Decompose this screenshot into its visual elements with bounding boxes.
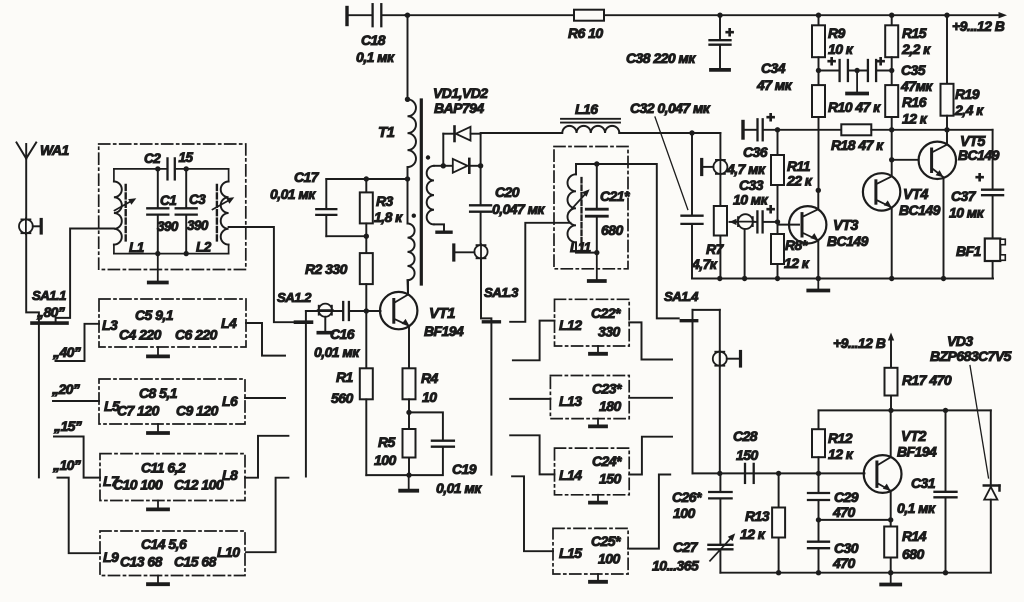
svg-text:+: +: [876, 53, 885, 70]
svg-text:2,2 к: 2,2 к: [901, 41, 931, 57]
svg-text:C3: C3: [189, 192, 206, 207]
svg-text:10 мк: 10 мк: [949, 205, 985, 221]
capacitor C16: [342, 302, 344, 320]
svg-text:SA1.3: SA1.3: [484, 285, 519, 300]
svg-text:470: 470: [832, 504, 855, 520]
svg-text:C8 5,1: C8 5,1: [139, 385, 178, 401]
wire antenna mast: [25, 159, 27, 220]
inductor L16: [562, 126, 619, 133]
svg-text:R5: R5: [378, 434, 396, 450]
node C34 C35 ground: [854, 68, 859, 73]
capacitor C32: [691, 133, 693, 214]
svg-text:„15”: „15”: [53, 418, 82, 434]
svg-text:L4: L4: [221, 315, 237, 331]
node T1 tap: [405, 176, 410, 181]
capacitor C31: [945, 410, 947, 490]
svg-text:180: 180: [599, 398, 621, 414]
wire antenna to pole: [26, 233, 39, 477]
node R13 rail: [776, 570, 781, 575]
wire VT3 collector: [817, 190, 819, 209]
svg-text:+: +: [766, 201, 775, 218]
svg-text:15: 15: [179, 150, 194, 165]
svg-text:L8: L8: [222, 467, 238, 483]
filter box L13: [550, 376, 629, 419]
antenna WA1: [17, 143, 27, 159]
node top left: [155, 166, 160, 171]
wire C18 to T1: [407, 15, 409, 99]
svg-text:BF1: BF1: [956, 243, 982, 259]
wire box2 right: [245, 397, 285, 399]
transformer T1 secondary: [434, 165, 443, 167]
capacitor C33: [756, 211, 758, 232]
wire emitter link: [819, 519, 891, 521]
ground under L12: [597, 346, 599, 354]
svg-text:390: 390: [187, 218, 209, 233]
svg-text:+: +: [975, 169, 984, 186]
svg-text:C17: C17: [294, 169, 320, 185]
pointer C32: [655, 117, 688, 210]
svg-text:1,8 к: 1,8 к: [374, 209, 403, 225]
capacitor C18: [349, 14, 372, 16]
svg-text:4,7 мк: 4,7 мк: [726, 161, 766, 177]
inductor L1: [114, 182, 122, 245]
wire SA1.3 pos2: [513, 321, 555, 361]
svg-text:BC149: BC149: [899, 202, 941, 218]
pointer VD3: [970, 366, 989, 479]
svg-text:47 мк: 47 мк: [756, 77, 793, 93]
capacitor C28: [744, 464, 746, 483]
capacitor C26: [719, 473, 721, 490]
svg-text:L6: L6: [222, 393, 238, 409]
svg-text:150: 150: [736, 447, 758, 463]
ground under box3: [157, 501, 159, 510]
node VT3 emitter rail: [816, 276, 821, 281]
capacitor C37: [992, 130, 994, 188]
wire band10 throw: [58, 478, 101, 554]
svg-text:L3: L3: [102, 317, 118, 333]
wire L1 tap to SA1.1: [56, 229, 114, 322]
capacitor C20: [470, 204, 491, 206]
svg-text:VT1: VT1: [429, 305, 455, 322]
terminal C18 left: [345, 8, 348, 25]
wire R16 to VT4: [891, 130, 893, 177]
svg-text:680: 680: [601, 222, 623, 238]
node top right: [184, 166, 189, 171]
switch SA1.2 contact bar: [296, 320, 312, 324]
variable capacitor C27: [708, 544, 732, 546]
svg-text:„10”: „10”: [52, 457, 81, 473]
svg-text:VT3: VT3: [833, 218, 858, 234]
switch SA1.4 pole frame: [693, 309, 720, 311]
svg-text:„20”: „20”: [51, 381, 80, 397]
svg-text:C37: C37: [951, 188, 977, 204]
svg-text:C19: C19: [452, 461, 477, 477]
svg-text:C20: C20: [495, 184, 520, 200]
svg-text:L14: L14: [559, 467, 582, 483]
ground VT1 stage: [408, 475, 410, 491]
svg-text:100: 100: [673, 505, 695, 521]
ground L11: [596, 253, 598, 281]
svg-text:C6 220: C6 220: [175, 327, 218, 343]
zener diode VD3: [990, 410, 992, 484]
capacitor C1: [157, 169, 159, 207]
svg-text:L15: L15: [559, 545, 582, 561]
svg-text:R2 330: R2 330: [305, 261, 348, 277]
svg-text:L2: L2: [196, 240, 212, 255]
band filter box L3 L4: [99, 299, 246, 347]
capacitor C21: [596, 164, 598, 208]
switch wafer SA1.3: [474, 245, 487, 258]
svg-text:C18: C18: [361, 32, 386, 48]
wire osc base rail: [720, 472, 865, 474]
ground under L14: [597, 495, 599, 503]
earphone BF1: [985, 239, 1001, 262]
supply arrow oscillator: [890, 337, 892, 368]
node C29 C30: [816, 517, 821, 522]
resistor R3: [365, 179, 367, 192]
switch SA1.1 contact bar: [32, 321, 67, 325]
svg-text:R19: R19: [955, 86, 980, 102]
ground C34 C35: [856, 71, 858, 94]
inner frame left: [113, 169, 115, 182]
switch SA1.3 contact bar: [483, 320, 499, 323]
wire L13 to SA1.4: [629, 397, 672, 399]
node C36 out: [775, 127, 780, 132]
capacitor C38: [719, 15, 721, 39]
band filter box L9 L10: [100, 531, 245, 576]
node VT2 emitter: [888, 517, 893, 522]
svg-text:+: +: [827, 53, 836, 70]
node VT3 collector: [816, 188, 821, 193]
node bottom left: [155, 251, 160, 256]
resistor R19: [946, 15, 948, 84]
ground tuned circuit: [157, 254, 159, 283]
svg-text:C5 9,1: C5 9,1: [135, 307, 174, 323]
svg-text:R12: R12: [828, 430, 853, 446]
capacitor C17: [325, 179, 327, 208]
node C18 T1: [405, 13, 410, 18]
svg-text:L16: L16: [575, 101, 598, 117]
resistor R16: [891, 71, 893, 86]
svg-text:4,7к: 4,7к: [691, 256, 718, 272]
svg-text:470: 470: [832, 555, 855, 571]
contact SA1.4: [727, 358, 739, 360]
node rail R9: [816, 13, 821, 18]
svg-text:12 к: 12 к: [902, 111, 928, 127]
resistor R7 line: [719, 133, 721, 160]
svg-text:BF194: BF194: [897, 444, 937, 460]
svg-text:C29: C29: [834, 489, 859, 505]
contact SA1.3: [452, 245, 455, 260]
resistor R2: [365, 236, 367, 253]
capacitor C19: [409, 412, 443, 439]
svg-text:0,047 мк: 0,047 мк: [492, 201, 545, 217]
node secondary top: [441, 163, 446, 168]
resistor R15: [891, 15, 893, 25]
svg-text:C32 0,047 мк: C32 0,047 мк: [630, 100, 711, 116]
node VT4 collector: [889, 157, 894, 162]
node R14 rail: [888, 570, 893, 575]
wiper R7: [730, 221, 738, 223]
band filter box L5 L6: [99, 379, 245, 424]
node R17 rail: [888, 408, 893, 413]
inner frame right: [228, 169, 230, 182]
svg-text:C25*: C25*: [591, 533, 621, 549]
wire top rail right: [604, 14, 1001, 16]
node R16 R18: [889, 127, 894, 132]
svg-text:+9...12 В: +9...12 В: [833, 335, 886, 351]
wire SA1.2 to C16: [306, 310, 342, 312]
svg-text:C4 220: C4 220: [119, 327, 162, 343]
svg-text:C22*: C22*: [591, 305, 621, 321]
svg-text:C11 6,2: C11 6,2: [141, 460, 186, 476]
wire VT1 emitter: [408, 326, 410, 368]
resistor R9: [818, 15, 820, 25]
wire box4 right: [246, 478, 288, 553]
resistor R4: [403, 368, 416, 399]
ground under L15: [597, 574, 599, 582]
wire band15 throw: [54, 437, 100, 478]
svg-text:R13: R13: [745, 508, 770, 524]
node rail R15: [889, 13, 894, 18]
node C32: [689, 130, 694, 135]
node C33 out: [775, 219, 780, 224]
svg-text:R14: R14: [902, 528, 927, 544]
svg-text:SA1.4: SA1.4: [664, 289, 699, 304]
svg-text:C23*: C23*: [592, 381, 622, 397]
wire VT1 collector: [407, 281, 409, 295]
node R4 R5: [406, 410, 411, 415]
wire SA1.3 pos3: [510, 398, 550, 400]
resistor R14: [890, 520, 892, 527]
transformer T1 core: [420, 100, 423, 284]
svg-text:SA1.1: SA1.1: [32, 288, 66, 303]
capacitor C30: [818, 520, 820, 540]
wire box3 right: [245, 436, 288, 478]
svg-text:C35: C35: [901, 62, 926, 78]
wire L2 tap to SA1.2: [229, 227, 296, 322]
node A C34: [816, 68, 821, 73]
node B C35: [889, 68, 894, 73]
switch wafer R7 top: [713, 160, 727, 174]
svg-text:WA1: WA1: [40, 142, 69, 158]
switch wafer SA1.2: [319, 304, 332, 317]
wire VT2 emitter: [890, 491, 892, 520]
resistor R17: [885, 368, 898, 396]
svg-text:R6 10: R6 10: [568, 25, 603, 41]
svg-text:R17 470: R17 470: [902, 372, 952, 388]
node VT4 emitter rail: [889, 276, 894, 281]
wire VT5 collector: [946, 130, 948, 145]
svg-text:0,1 мк: 0,1 мк: [897, 500, 936, 516]
svg-text:47мк: 47мк: [900, 78, 933, 94]
shield box L1 L2: [99, 144, 246, 270]
svg-text:L11: L11: [570, 240, 591, 255]
inner frame bottom: [114, 253, 229, 255]
svg-text:L10: L10: [217, 544, 240, 560]
transformer T1 primary upper: [408, 99, 416, 167]
contact R7 wafer: [700, 160, 703, 175]
node R12 base: [816, 471, 821, 476]
node L11 bottom: [594, 250, 599, 255]
svg-text:R4: R4: [421, 370, 439, 386]
svg-text:C30: C30: [834, 540, 859, 556]
svg-text:C36: C36: [743, 144, 768, 160]
ground under box1: [157, 347, 159, 356]
capacitor C36: [745, 129, 756, 131]
svg-text:BC149: BC149: [827, 233, 869, 249]
wire top rail left: [405, 14, 574, 16]
node C31 rail bottom: [943, 570, 948, 575]
svg-text:0,01 мк: 0,01 мк: [314, 344, 360, 360]
switch wafer R7 wiper: [738, 214, 753, 229]
svg-text:+: +: [766, 109, 775, 126]
svg-text:C38 220 мк: C38 220 мк: [626, 50, 696, 66]
ground under L13: [597, 419, 599, 427]
svg-text:VD1,VD2: VD1,VD2: [433, 85, 488, 101]
wire VD right vertical: [480, 134, 482, 204]
svg-text:C2: C2: [144, 151, 161, 166]
svg-text:„40”: „40”: [52, 344, 81, 360]
polarity dot T1 primary: [412, 214, 416, 218]
svg-text:R7: R7: [706, 241, 725, 257]
svg-text:C21*: C21*: [600, 188, 630, 204]
wiper stem: [744, 229, 746, 279]
wire L14 to SA1.4: [629, 437, 672, 475]
svg-text:0,1 мк: 0,1 мк: [356, 49, 395, 65]
wire osc top rail: [819, 409, 991, 411]
transistor VT1: [380, 292, 417, 329]
node R3 top: [364, 176, 369, 181]
filter box L15: [553, 528, 628, 574]
node emitter ground: [406, 472, 411, 477]
resistor R6: [574, 10, 604, 21]
switch SA1.3 pole: [481, 258, 491, 474]
svg-text:390: 390: [157, 219, 179, 234]
node VT5 emitter rail: [941, 276, 946, 281]
svg-text:C26*: C26*: [672, 489, 702, 505]
inductor L11: [575, 164, 577, 174]
filter box L12: [555, 299, 630, 346]
svg-text:0,01 мк: 0,01 мк: [270, 186, 316, 202]
node VT5 collector: [944, 127, 949, 132]
svg-text:BZP683C7V5: BZP683C7V5: [930, 348, 1012, 364]
terminal C36 left: [741, 122, 744, 139]
wire VD bridge left: [442, 134, 444, 166]
switch SA1.2 pole: [305, 311, 307, 477]
resistor R8: [777, 222, 779, 234]
ground under box4: [157, 576, 159, 585]
node rail R19: [944, 13, 949, 18]
svg-text:L13: L13: [559, 393, 582, 409]
svg-text:R3: R3: [376, 193, 394, 209]
diode VD2: [443, 165, 452, 167]
svg-text:R16: R16: [902, 94, 927, 110]
transistor VT5: [919, 142, 956, 179]
switch SA1.4 contact bar: [681, 319, 696, 322]
node C30 rail: [816, 570, 821, 575]
svg-text:R18 47 к: R18 47 к: [831, 137, 884, 153]
svg-text:12 к: 12 к: [784, 255, 810, 271]
inductor L2: [221, 182, 229, 245]
svg-text:C13 68: C13 68: [120, 554, 163, 570]
transformer T1 primary lower: [408, 224, 415, 281]
wire detector out: [481, 132, 562, 134]
svg-text:12 к: 12 к: [828, 446, 854, 462]
switch wafer SA1.1: [19, 219, 33, 233]
svg-text:2,4 к: 2,4 к: [954, 102, 984, 118]
capacitor C35: [867, 60, 869, 81]
resistor R12: [812, 429, 825, 457]
svg-text:C14 5,6: C14 5,6: [141, 536, 187, 552]
svg-text:100: 100: [374, 452, 396, 468]
wire VT3 base: [778, 224, 800, 226]
svg-text:C12 100: C12 100: [174, 477, 224, 493]
svg-text:C7 120: C7 120: [117, 403, 160, 419]
svg-text:VT4: VT4: [903, 187, 928, 203]
svg-text:C31: C31: [911, 475, 936, 491]
node bottom right: [184, 251, 189, 256]
svg-text:560: 560: [331, 390, 353, 406]
switch wafer SA1.4: [713, 352, 727, 366]
potentiometer R7: [719, 174, 721, 206]
wire SA1.3 pos4: [510, 435, 554, 474]
svg-text:150: 150: [599, 471, 621, 487]
svg-text:R1: R1: [336, 369, 354, 385]
svg-text:C1: C1: [160, 193, 176, 208]
node R8 rail: [775, 276, 780, 281]
svg-text:L12: L12: [559, 317, 582, 333]
capacitor C34: [819, 70, 839, 72]
wire SA1.3 pos1 to L11: [510, 223, 570, 322]
svg-text:C15 68: C15 68: [174, 554, 217, 570]
node wiper stem: [742, 276, 747, 281]
wire VT4 emitter: [891, 208, 893, 279]
wire L16 to C32 node: [619, 132, 720, 134]
wire SA1.3 pos5: [512, 476, 553, 551]
svg-text:680: 680: [902, 546, 924, 562]
resistor R11: [777, 130, 779, 155]
svg-text:BF194: BF194: [424, 323, 464, 339]
svg-text:R10 47 к: R10 47 к: [828, 99, 881, 115]
svg-text:L9: L9: [103, 549, 119, 565]
svg-text:T1: T1: [378, 124, 395, 141]
svg-text:10: 10: [422, 389, 437, 405]
svg-text:C9 120: C9 120: [176, 403, 219, 419]
diode VD1: [443, 133, 453, 135]
wire band40 throw: [56, 324, 100, 361]
wire L11 to SA1.4: [597, 164, 679, 318]
svg-text:VD3: VD3: [947, 333, 973, 349]
svg-text:C27: C27: [673, 539, 699, 555]
svg-text:R9: R9: [828, 25, 846, 41]
ground under box2: [157, 424, 159, 433]
filter box L14: [555, 448, 630, 495]
resistor R10: [818, 71, 820, 86]
capacitor C2: [166, 158, 168, 179]
wire bottom rail: [692, 278, 993, 280]
svg-text:BAP794: BAP794: [434, 100, 484, 116]
svg-text:+: +: [725, 24, 734, 41]
wire band20 throw: [53, 400, 99, 402]
svg-text:0,01 мк: 0,01 мк: [436, 480, 482, 496]
wire osc bottom rail: [720, 572, 990, 574]
node T1 top: [405, 97, 410, 102]
resistor R5: [408, 412, 410, 429]
node C31 rail top: [943, 408, 948, 413]
svg-text:10...365: 10...365: [652, 558, 699, 574]
wire L15 to SA1.4: [628, 475, 670, 549]
